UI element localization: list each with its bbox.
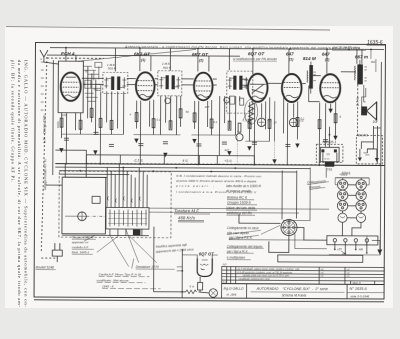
- svg-text:2-7 m: 2-7 m: [356, 97, 360, 106]
- terminal circles: [333, 239, 368, 243]
- bias resistor zigzag: [186, 290, 197, 294]
- svg-text:Valve del lato della: Valve del lato della: [226, 206, 255, 210]
- electrolytic capacitor C circle 1: [257, 118, 265, 126]
- output tube bottom: [182, 255, 218, 277]
- stage coupling wires: [82, 48, 356, 86]
- handwriting collegamento tripolo: [226, 245, 263, 254]
- B+ top bus wire: [50, 48, 384, 50]
- svg-text:plif. BF; la seconda quale fin: plif. BF; la seconda quale finale. Grupp…: [11, 60, 16, 182]
- IF transformer T1: [103, 72, 128, 93]
- svg-text:50: 50: [85, 69, 89, 73]
- IF transformer T3: [227, 71, 253, 113]
- svg-text:si sostituiscono per PN Arnoli: si sostituiscono per PN Arnolin: [233, 57, 277, 61]
- IF2 bottom trimmer circle: [165, 98, 171, 104]
- resistor R clutter row: [60, 108, 337, 133]
- left rotated book caption: [11, 60, 29, 307]
- frame double bottom line: [34, 300, 384, 302]
- svg-text:Mod. 1645-1: Mod. 1645-1: [72, 250, 90, 254]
- tube socket S7: [338, 213, 347, 222]
- svg-text:647: 647: [286, 51, 294, 56]
- vibrator: [281, 219, 297, 235]
- svg-text:Tarature M.F.: Tarature M.F.: [174, 208, 200, 213]
- dashed chassis line mid: [86, 163, 329, 164]
- revision table: [222, 267, 385, 285]
- power wiring: [229, 167, 383, 255]
- svg-text:6Q7 GT: 6Q7 GT: [199, 251, 214, 256]
- handwriting cavilla: [97, 272, 142, 288]
- svg-text:+5T: +5T: [337, 247, 342, 251]
- tube V3 6K7GT: [194, 73, 213, 101]
- svg-text:100: 100: [62, 113, 67, 117]
- svg-text:data 3-3-1946: data 3-3-1946: [351, 294, 370, 298]
- long thin note box: [278, 255, 363, 262]
- extra verticals detector: [237, 101, 275, 165]
- connector notch: [133, 230, 141, 236]
- terminal strip: [327, 236, 378, 245]
- voltage measurement strip: [86, 155, 254, 165]
- svg-text:6Q7 GT: 6Q7 GT: [248, 51, 266, 56]
- svg-text:Ing.G GALLO: Ing.G GALLO: [224, 287, 244, 291]
- tube socket S8: [356, 213, 365, 222]
- base line: [62, 234, 149, 237]
- svg-text:25: 25: [273, 120, 278, 124]
- outer frame: [34, 43, 385, 300]
- wires out of tuning unit: [46, 155, 329, 213]
- svg-text:+3 /Ⅼ: +3 /Ⅼ: [224, 159, 232, 163]
- potentiometer volume: [244, 101, 254, 129]
- wire drops stage 3: [191, 48, 240, 164]
- pilot lamp meter: [209, 289, 217, 297]
- output transformer 667m: [354, 60, 367, 136]
- tube socket S5: [337, 201, 347, 211]
- heater wires bottom: [154, 227, 210, 298]
- tuning unit box: [62, 177, 106, 234]
- tube V6 647: [320, 74, 340, 102]
- svg-text:468 Kc/s: 468 Kc/s: [178, 215, 196, 220]
- svg-text:Bovilet: Bovilet: [358, 133, 368, 137]
- svg-text:N.B. I condensatori indicati d: N.B. I condensatori indicati devono in c…: [176, 174, 261, 178]
- wire drops stage 4 detector: [245, 49, 298, 165]
- svg-text:m: m: [40, 58, 42, 61]
- svg-text:N?: N?: [223, 263, 227, 267]
- tube V5 647: [282, 74, 302, 102]
- title block cells: [222, 284, 385, 299]
- title row heavy line: [222, 283, 384, 286]
- svg-text:Gruppo 1639-6: Gruppo 1639-6: [227, 201, 251, 205]
- svg-text:Deviatore 1270: Deviatore 1270: [136, 265, 159, 269]
- handwriting NB paragraph: [175, 174, 261, 194]
- main bus wires: [55, 150, 384, 179]
- svg-text:0,1: 0,1: [94, 87, 98, 91]
- svg-text:m/: m/: [321, 275, 324, 278]
- svg-text:modello A.F.: modello A.F.: [72, 245, 90, 249]
- voltage labels: [133, 119, 378, 176]
- svg-text:±3: ±3: [326, 152, 330, 156]
- svg-text:902: 902: [371, 60, 376, 64]
- handwriting collegamento FEK: [227, 226, 259, 240]
- svg-text:447: 447: [224, 148, 229, 152]
- dashed chassis line vertical left: [41, 57, 59, 258]
- svg-text:Collegamento in caso: Collegamento in caso: [227, 226, 259, 230]
- dashed chassis line top-left: [47, 57, 104, 59]
- tube socket S2: [356, 180, 366, 190]
- electrolytic capacitor C circle 3: [236, 134, 243, 141]
- terminal labels and arrows: [334, 242, 368, 255]
- svg-text:modificato schema per mod.: modificato schema per mod.: [239, 278, 271, 281]
- svg-text:0,1: 0,1: [214, 120, 218, 124]
- svg-text:prova parall. ;: prova parall. ;: [175, 184, 214, 188]
- handwriting gruppo 1660M: [72, 235, 94, 254]
- svg-text:apparato m/: apparato m/: [72, 240, 90, 244]
- transformer in 1635-1: [320, 127, 339, 172]
- svg-text:+04/4: +04/4: [339, 173, 347, 177]
- aerial plug symbol: [52, 243, 62, 262]
- box 1635-1: [316, 144, 343, 162]
- tube labels: [61, 50, 368, 63]
- svg-text:m m: m m: [324, 158, 329, 161]
- svg-text:743: 743: [327, 168, 333, 172]
- svg-text:50: 50: [186, 110, 190, 114]
- tube socket S3: [337, 190, 347, 200]
- svg-text:Bovilet 5248: Bovilet 5248: [36, 266, 54, 270]
- IF3 bottom trimmer circle: [224, 97, 230, 103]
- svg-text:-2,1 /Ⅼ: -2,1 /Ⅼ: [133, 159, 143, 163]
- svg-text:Gruppo 1660 M: Gruppo 1660 M: [72, 235, 94, 239]
- svg-text:4 /Ⅼ: 4 /Ⅼ: [182, 159, 188, 163]
- svg-text:AUTORADIO “CYCLONE-SIX” -: AUTORADIO “CYCLONE-SIX” - 2° serie: [256, 287, 328, 291]
- svg-text:+25: +25: [267, 118, 272, 122]
- leader lines to gruppo text: [84, 229, 157, 266]
- svg-text:0,1: 0,1: [301, 117, 305, 121]
- IF transformer T2: [158, 71, 182, 96]
- svg-text:6 m: 6 m: [190, 284, 195, 288]
- tube socket S4: [356, 190, 366, 200]
- svg-text:Cavilla A.F. 54mm Tipo P. N: Cavilla A.F. 54mm Tipo P. N 38: [99, 272, 142, 276]
- svg-text:e multipolare: e multipolare: [227, 256, 245, 260]
- potentiometer shield: [245, 99, 258, 124]
- revision table entries: [223, 267, 361, 284]
- ground arrows: [59, 107, 338, 164]
- tube socket S6: [356, 201, 366, 211]
- trimmer circle: [65, 212, 106, 221]
- wire drops stage 1: [61, 48, 124, 164]
- interstage transformer 814M: [307, 62, 316, 94]
- antenna leader line: [78, 49, 196, 62]
- left margin tick marks: [40, 58, 44, 110]
- title block text: [224, 286, 370, 298]
- svg-text:Bobina RC 6: Bobina RC 6: [227, 196, 247, 200]
- grid clutter stage1: [84, 62, 102, 101]
- tube V1 ECH4 box: [58, 61, 83, 113]
- cathode resistor below output tube: [198, 282, 203, 290]
- dashed box right bovilet: [356, 136, 382, 164]
- tube V4 6Q7GT: [248, 74, 268, 102]
- small comp box in tuning unit: [92, 196, 100, 203]
- svg-text:N° 1635-6: N° 1635-6: [350, 287, 368, 291]
- handwriting bobina list: [226, 184, 261, 215]
- svg-text:1645 - 8: 1645 - 8: [102, 284, 114, 288]
- tube V1 ECH4: [61, 72, 81, 101]
- antenna: [40, 50, 59, 64]
- left inner vertical wire: [52, 60, 55, 175]
- svg-text:Schema M.Fulvia: Schema M.Fulvia: [282, 293, 307, 297]
- tube socket S1: [337, 180, 347, 190]
- svg-text:647: 647: [322, 52, 330, 57]
- coil comb verticals: [107, 164, 147, 236]
- wire drops stage 2: [133, 48, 181, 164]
- tube V2 6K7GT: [136, 72, 155, 100]
- coil pack box with labels: [106, 207, 149, 229]
- svg-text:modificata : Met alcuna: modificata : Met alcuna: [97, 278, 129, 282]
- svg-text:814 M: 814 M: [303, 56, 316, 61]
- svg-text:di massa anodo: di massa anodo: [226, 189, 251, 193]
- loudspeaker: [356, 97, 377, 120]
- svg-text:lato rivolto al n 1000 R: lato rivolto al n 1000 R: [226, 184, 261, 188]
- svg-text:M. 1989: M. 1989: [227, 293, 237, 297]
- svg-text:al primo 1000 V. Provino di la: al primo 1000 V. Provino di lavoro al te…: [176, 179, 256, 183]
- socket column wires: [335, 178, 369, 236]
- wires inside bovilet box: [358, 126, 381, 162]
- svg-text:m/: m/: [347, 275, 350, 278]
- value labels clutter: [61, 69, 341, 153]
- svg-text:207: 207: [204, 105, 210, 109]
- handwriting modifica apportata: [156, 243, 194, 254]
- electrolytic capacitor C circle 2: [289, 118, 297, 126]
- tuning unit dashed shield: [59, 171, 171, 238]
- wire drops output stage: [308, 49, 382, 255]
- page top scan edge: [6, 27, 330, 30]
- secondary top wire: [47, 55, 240, 56]
- handwriting collegamenti filament: [307, 179, 326, 190]
- svg-text:Aℓℓ: Aℓℓ: [359, 247, 363, 251]
- svg-text:100Ω: 100Ω: [56, 121, 60, 128]
- capacitor marks: [64, 132, 328, 148]
- handwriting tarature: [174, 208, 200, 220]
- svg-text:0,1: 0,1: [157, 118, 161, 122]
